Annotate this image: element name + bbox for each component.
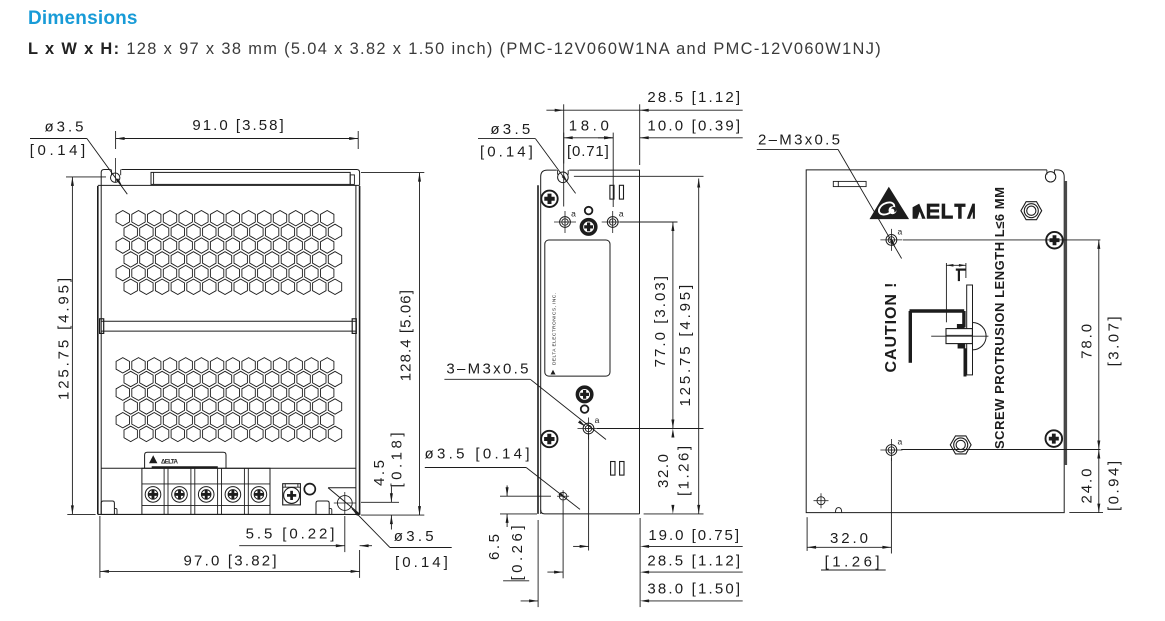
svg-text:32.0: 32.0 [830,530,868,547]
left view divider left end cap [100,319,104,334]
ext line at lower a screw level [597,428,704,430]
svg-text:97.0 [3.82]: 97.0 [3.82] [184,553,277,570]
left view small round hole [304,484,315,495]
left view label bottom shadow bar [152,466,218,468]
right view plate outline [806,170,1064,513]
right view upper phillips screw [1046,232,1063,249]
left view terminal screws [145,487,161,503]
left view lower vent hex panel [116,358,129,373]
title [28,8,138,30]
left view right foot [316,501,329,514]
svg-text:SCREW PROTRUSION LENGTH L≤6 M: SCREW PROTRUSION LENGTH L≤6 MM [992,187,1007,449]
leader to middle top hole [535,139,575,194]
middle view lower a screw [583,423,594,434]
svg-text:[0.94]: [0.94] [1106,461,1123,511]
svg-text:a: a [595,415,600,425]
svg-text:[1.26]: [1.26] [825,553,880,570]
leader to lower a screw [530,379,606,439]
middle view top mounting hole phi3.5 [558,172,569,183]
left view top flange bottom edge [98,184,360,186]
svg-text:28.5 [1.12]: 28.5 [1.12] [647,552,740,569]
middle view lower black ring screw [577,387,591,401]
left view outer side walls [97,186,99,514]
svg-text:a: a [571,209,576,219]
svg-text:[0.26]: [0.26] [509,526,526,581]
left view corner bracket [328,487,356,489]
middle view lower small circle [581,405,589,413]
left view terminal block horizontal dividers [142,483,270,485]
svg-text:2–M3x0.5: 2–M3x0.5 [758,132,840,149]
svg-text:4.5: 4.5 [371,460,388,486]
middle view upper small circle [585,207,593,215]
svg-text:a: a [619,209,624,219]
leader to corner bracket screw [352,509,390,548]
leader to lower-left hole [526,468,580,510]
right view ext line lower [901,449,1100,451]
middle view upper black ring screw [581,220,595,234]
svg-text:[0.71]: [0.71] [567,143,609,160]
right view lower hex nut [950,436,971,454]
left view top lid recess bar [151,172,350,184]
svg-text:19.0 [0.75]: 19.0 [0.75] [648,527,739,544]
right view bottom-left hole [817,497,825,505]
middle view top notch [557,169,569,174]
svg-text:6.5: 6.5 [486,534,503,560]
middle view left a screw [560,217,571,228]
svg-text:38.0 [1.50]: 38.0 [1.50] [647,581,740,598]
right view caution symbol [972,323,986,350]
svg-text:[3.07]: [3.07] [1106,316,1123,366]
svg-text:ø3.5: ø3.5 [394,528,434,545]
svg-text:28.5 [1.12]: 28.5 [1.12] [647,89,740,106]
left view upper vent hex panel [116,211,129,226]
left view terminal block outline [142,468,270,514]
middle view body outline [541,170,640,514]
middle view top-left phillips screw [541,191,557,207]
middle view lower-left phillips screw [541,431,557,447]
svg-text:ø3.5: ø3.5 [45,119,84,136]
svg-text:DELTA ELECTRONICS, INC.: DELTA ELECTRONICS, INC. [552,293,558,365]
right view delta logo triangle [870,187,910,219]
left view terminal section top edge [101,467,356,469]
right view bottom notch [836,508,842,513]
left view mid divider bar [101,320,356,322]
svg-text:[1.26]: [1.26] [676,446,693,496]
left view body outline [100,185,102,514]
svg-text:125.75 [4.95]: 125.75 [4.95] [56,278,73,400]
left view top-left mounting hole phi3.5 [111,173,120,182]
right view upper hex nut [1021,202,1042,220]
svg-text:ø3.5: ø3.5 [490,121,530,138]
svg-text:125.75 [4.95]: 125.75 [4.95] [677,285,694,407]
svg-text:128.4 [5.06]: 128.4 [5.06] [398,290,415,381]
middle view label plate [545,240,610,376]
left view delta label plate [145,452,226,468]
right view top notch [1046,170,1048,175]
svg-text:91.0 [3.58]: 91.0 [3.58] [192,117,283,134]
left view left foot [101,501,114,514]
left view top flange [101,170,359,186]
right view right side wall [1065,181,1067,465]
svg-text:77.0 [3.03]: 77.0 [3.03] [652,276,669,367]
right view lower a screw [886,445,897,456]
svg-text:ΔELTA: ΔELTA [161,459,179,466]
right view DELTA wordmark [913,204,926,219]
svg-text:[0.14]: [0.14] [30,142,85,159]
svg-text:[0.14]: [0.14] [395,554,448,571]
left view delta label logo triangle [149,455,157,463]
svg-text:a: a [898,226,903,236]
svg-text:32.0: 32.0 [655,454,672,488]
svg-text:5.5 [0.22]: 5.5 [0.22] [246,526,335,543]
left view potentiometer square [283,484,301,505]
svg-text:[0.14]: [0.14] [480,144,533,161]
right view lower phillips screw [1046,430,1063,447]
left view lid bar right end cap [350,175,354,185]
svg-text:78.0: 78.0 [1078,324,1095,359]
ext lines below middle view [537,520,539,607]
middle view upper vent slots [610,185,614,199]
svg-text:24.0: 24.0 [1078,469,1095,504]
left view corner bracket screw hole [337,496,352,511]
svg-text:3–M3x0.5: 3–M3x0.5 [446,361,528,378]
svg-text:18.0: 18.0 [569,118,609,135]
middle view right a screw [607,217,618,228]
middle view left side wall [537,185,539,514]
middle view lower-left hole phi3.5 [559,492,567,500]
leader to top-left hole [87,139,127,195]
svg-text:10.0 [0.39]: 10.0 [0.39] [647,118,740,135]
leader to right view upper a screw [838,149,902,258]
svg-text:CAUTION !: CAUTION ! [883,283,900,373]
middle view lower vent slots [611,462,615,476]
left view divider right end cap [352,319,356,334]
subtitle [28,40,882,59]
right view top-left slot [833,181,866,186]
left view terminal block cell dividers [163,468,165,514]
right view upper a screw [886,235,897,246]
left view top-left mounting notch [111,168,122,174]
svg-text:[0.18]: [0.18] [388,433,405,488]
svg-text:ø3.5 [0.14]: ø3.5 [0.14] [425,446,530,463]
right view ext line upper [903,239,1100,241]
svg-text:a: a [898,437,903,447]
middle view inner top edge [574,175,704,177]
